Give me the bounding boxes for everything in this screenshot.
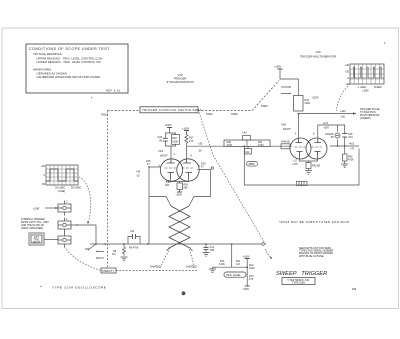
pot element wire [216,266,247,268]
junction dot feedback left [244,145,246,147]
C13 ground [203,253,210,257]
R8 resistor to ground [123,244,126,256]
svg-text:C41: C41 [245,151,250,154]
parts list note [299,247,333,258]
svg-text:.001: .001 [165,184,170,187]
ext trig input jack [29,233,44,245]
C11 capacitor plates [133,234,136,239]
svg-text:CALIBRATED WAVEFORM SETUP DUPL: CALIBRATED WAVEFORM SETUP DUPLICATED [37,75,101,79]
svg-text:1M: 1M [112,253,115,256]
svg-text:(SWEEP): (SWEEP) [360,117,371,120]
svg-text:C11: C11 [130,230,135,233]
open switch throw contacts [97,252,104,259]
V10 right triode internals [182,160,194,180]
C13 plates [204,248,209,250]
trigger coupling wafer contact 1 [58,201,71,216]
svg-text:WAVEFORMS: WAVEFORMS [33,68,51,72]
trigger pulse output line [298,113,356,115]
center bottom mark [182,292,185,295]
svg-text:(1856): (1856) [248,163,255,166]
stability ganged label box [101,268,116,273]
tube V40 envelope [290,138,327,159]
dashed arc left to linkage [160,248,170,268]
svg-text:100K: 100K [249,267,255,270]
capacitor C11 bypass loop [128,237,140,245]
R40 R41 series box [224,140,270,147]
dashed enclosure top run right [198,110,252,112]
R45 box [343,154,348,161]
svg-text:TRIG. LEVEL: TRIG. LEVEL [226,274,241,277]
V40 tube label [281,123,292,132]
conditions-of-test note box [26,44,128,93]
svg-text:STABILITY: STABILITY [102,270,114,273]
svg-text:VOLTAGE READINGS: VOLTAGE READINGS [33,52,62,56]
R10 label [219,260,225,266]
tube V10 envelope [160,159,199,181]
junction wire under caps [330,145,359,147]
svg-text:470K: 470K [227,144,233,147]
-150V under R16 [179,190,181,193]
svg-text:V10: V10 [177,73,182,77]
pot left ground [209,267,216,272]
wire R41 to V40 grid [270,145,292,147]
C18 plates [163,138,168,141]
supply wire to R43 [280,69,298,96]
svg-text:(VERT. AMPLIFIER): (VERT. AMPLIFIER) [21,227,43,230]
svg-text:470K: 470K [348,159,354,162]
svg-text:GANGED: GANGED [150,266,161,269]
trigger pulse destination text [360,108,380,120]
dashed gang diagonal to trig level [199,113,266,246]
svg-text:-100: -100 [340,116,346,119]
svg-text:+35: +35 [198,143,203,146]
V40 left triode internals [295,139,306,158]
right graticule pulse trace [350,67,384,78]
svg-text:TYPE 310A OSCILLOSCOPE: TYPE 310A OSCILLOSCOPE [52,286,107,290]
svg-text:50 mSEC: 50 mSEC [71,187,82,190]
svg-text:+287: +287 [324,127,330,130]
svg-text:u SEC: u SEC [362,90,369,93]
svg-text:47K: 47K [189,140,194,143]
svg-text:4: 4 [91,97,93,100]
trig level control label box [224,272,246,277]
tektronix imprint box [282,278,315,285]
svg-text:+176: +176 [292,163,298,166]
left graticule time labels [55,187,82,194]
neon coupling branch [337,125,339,146]
C45 coupling branch [344,125,346,146]
tektronix imprint text [287,279,310,285]
svg-text:+100: +100 [340,110,346,113]
V10 plate output wire to terminal [189,170,211,207]
feedback hatch resistor [297,181,308,185]
svg-text:680: 680 [184,187,189,190]
svg-text:R46 68: R46 68 [282,141,291,144]
divider wire [246,259,248,287]
svg-text:TYPE 310A: TYPE 310A [292,282,305,285]
svg-text:.005: .005 [210,249,215,252]
svg-text:L40: L40 [243,132,248,135]
svg-text:SW10: SW10 [206,113,213,116]
svg-text:V40: V40 [315,50,320,54]
main coupling wire to V40 [186,145,224,147]
trigger pickoff bus wire [90,243,261,245]
C18 label [158,136,163,143]
capacitor C13 to ground [205,244,207,248]
V10 grid wire [149,166,161,168]
spare wafer contacts [281,87,290,94]
svg-text:V40: V40 [281,123,286,127]
dashed enclosure left side [107,111,109,269]
wire wafer2 to grid riser [71,225,96,244]
V10 left triode internals [165,160,177,180]
feedback loop wire [244,146,359,185]
dashed enclosure top run [108,110,141,112]
svg-text:+415: +415 [349,143,355,146]
R16 label [184,184,189,190]
svg-text:R9 470K: R9 470K [129,247,139,250]
svg-text:+50: +50 [41,165,46,168]
wire from LINE to coupling wafer [45,207,58,209]
conditions-of-test note text [29,47,121,100]
R45 to ground [344,146,346,154]
svg-text:+176: +176 [323,122,329,125]
svg-text:R42 68: R42 68 [312,165,321,168]
svg-text:+45: +45 [136,171,141,174]
svg-text:220K: 220K [305,102,311,105]
svg-text:-150V: -150V [243,288,250,291]
stage label V10 trigger synchronization [166,73,193,84]
svg-text:LOWER READING - TRIG. LEVEL CO: LOWER READING - TRIG. LEVEL CONTROL CW [37,60,102,64]
svg-text:-150V: -150V [176,194,183,197]
svg-text:469: 469 [352,288,357,291]
junction R43 bottom [298,113,300,115]
V10 grid riser from bus [149,167,171,244]
stage label V40 trigger multivibrator [300,50,336,59]
svg-text:6DJ8*: 6DJ8* [283,127,292,131]
left waveform square-wave trace [46,169,78,181]
C41 pickoff stub [247,146,249,148]
V40 cathode circuit [300,158,318,163]
R11 label [236,260,241,266]
R18 label [172,137,178,144]
R13 label [249,275,254,281]
R16 cathode resistor box [177,183,183,190]
C41 box [245,149,252,155]
L40 peaking coil [243,136,251,141]
C18 R18 parallel loop [165,133,175,160]
R43 label [305,99,311,105]
V40 cathode ground [308,169,310,171]
svg-text:V10: V10 [158,149,163,153]
dashed diagonal to multivibrator supply [252,81,279,111]
dashed gang line [116,270,197,272]
svg-text:+225V: +225V [312,97,319,100]
bus terminal circle [262,243,265,246]
arrowhead [353,112,356,115]
dashed pointer from left graticule [79,177,91,224]
svg-text:UPPER READING - TRIG. LEVEL CO: UPPER READING - TRIG. LEVEL CONTROL CCW [37,57,103,61]
svg-text:5uSEC: 5uSEC [374,86,382,89]
trig level pot drop wire [231,244,233,267]
R45 ground [344,161,346,164]
V40 right triode internals [311,139,322,158]
svg-text:SW40: SW40 [231,113,238,116]
R17 to plate and main wire [185,146,187,159]
left waveform graticule [46,165,78,185]
C40 label [329,133,334,139]
dashed pointer from right graticule [337,84,351,111]
R17 plate resistor zigzag [185,131,188,146]
svg-text:6DJ8*: 6DJ8* [160,154,169,158]
svg-text:100K: 100K [219,263,225,266]
svg-text:*6DU8 MAY BE SUBSTITUTED FOR 6: *6DU8 MAY BE SUBSTITUTED FOR 6DJ8. [279,220,350,224]
dashed arc right to linkage [189,248,194,268]
neon bulb [335,133,340,138]
svg-text:(LINE): (LINE) [58,190,65,193]
svg-text:1M: 1M [236,263,239,266]
svg-text:SW40: SW40 [261,105,268,108]
R46 grid stopper box [281,144,290,149]
junction dot wafer2 wire [76,224,77,225]
footer tick [40,286,41,287]
trigger coupling switch label box [140,107,198,113]
trigger coupling wafer contact 2 [58,218,71,233]
wire ext trig to wafer 3 [44,239,58,241]
svg-text:WITH BLUE OUTLINE.: WITH BLUE OUTLINE. [299,255,325,258]
dashed mechanical link from wafers to stability box [65,247,102,271]
internal trigger source note [20,218,49,230]
V10 cathode join [171,179,189,183]
svg-text:TRIGGER: TRIGGER [174,77,187,81]
svg-text:100K: 100K [172,141,178,144]
svg-text:470K: 470K [258,144,264,147]
C45 label [348,133,353,139]
svg-text:TRIGGER MULTIVIBRATOR: TRIGGER MULTIVIBRATOR [300,55,336,59]
svg-text:.001: .001 [348,136,353,139]
linkage lower flare [167,248,193,251]
output terminal circle [211,167,213,169]
svg-text:CONDITIONS OF SCOPE UNDER TEST: CONDITIONS OF SCOPE UNDER TEST [29,47,110,51]
R42 cathode resistor box [306,163,311,169]
V10 tube label [158,149,169,158]
R43 plate load box [294,96,304,112]
right waveform graticule [350,64,384,84]
mechanical scissor linkage [169,206,190,248]
svg-text:REF 9-61: REF 9-61 [106,90,121,93]
svg-text:SYNCHRONIZATION: SYNCHRONIZATION [166,80,193,84]
junction dots on bus [95,243,97,245]
svg-text:SWEEP TRIGGER: SWEEP TRIGGER [276,271,327,277]
-150V supply for divider [245,285,250,287]
right graticule labels [345,64,350,86]
trigger coupling wafer contact 3 [58,233,71,248]
left graticule axis labels [41,165,46,186]
R18 box [172,135,180,145]
linkage pivot dots [179,211,180,244]
svg-text:GANGED: GANGED [186,266,197,269]
switch wiper arrow at bus end [266,249,271,257]
bus entry switch arrow [88,244,96,250]
R17 label [189,137,194,144]
svg-text:TRIGGER COUPLING SWITCH SW1: TRIGGER COUPLING SWITCH SW10 [142,108,202,112]
svg-text:SW10: SW10 [101,114,108,117]
ext trig input text [33,236,41,244]
svg-text:OBTAINED AS SHOWN: OBTAINED AS SHOWN [37,72,67,76]
throw contact dots [96,251,97,252]
V40 plate riser left [298,114,300,140]
svg-text:+40: +40 [345,64,350,67]
V40 right plate riser [318,125,345,139]
R45 label [348,156,354,162]
ground for R8 [121,257,128,261]
svg-text:LINE: LINE [33,207,39,211]
divider junction [246,266,248,268]
svg-text:+20: +20 [345,71,350,74]
svg-text:+76: +76 [350,148,355,151]
svg-text:+100V: +100V [165,124,172,127]
svg-text:+100V: +100V [274,66,281,69]
C45 plates [342,134,347,138]
svg-text:27K: 27K [249,278,254,281]
svg-text:INPUT: INPUT [33,241,41,244]
svg-text:SW: SW [85,248,90,251]
knob label 1856 [247,162,258,167]
